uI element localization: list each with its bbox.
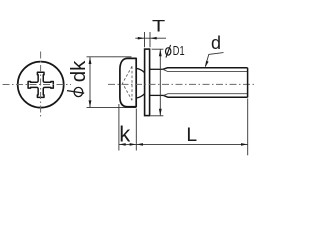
dim phi-D1 arrow up bbox=[159, 49, 162, 56]
leader arrowhead for d bbox=[205, 61, 209, 68]
screw tip end face bbox=[247, 68, 249, 98]
dim T arrow left (pointing right) bbox=[138, 37, 145, 40]
thread root top (thin) bbox=[163, 69, 247, 71]
thread shank stub top bbox=[150, 68, 163, 70]
captive washer bbox=[145, 49, 150, 116]
dim L arrow right bbox=[241, 143, 248, 146]
thread crest top bbox=[163, 68, 248, 70]
thread root bottom (thin) bbox=[164, 94, 248, 96]
leader line for d bbox=[205, 53, 223, 67]
svg-text:d: d bbox=[211, 33, 221, 53]
hidden recess opening line (dashed vertical) bbox=[131, 66, 133, 100]
phillips cross recess bbox=[28, 72, 53, 97]
dim phi-dk arrow down bbox=[89, 100, 92, 107]
node front-view centerline horizontal bbox=[3, 84, 72, 86]
dim phi-dk extension line bottom bbox=[87, 107, 137, 109]
dim T extension left bbox=[144, 32, 146, 47]
dim phi-D1 dimension line bbox=[159, 49, 161, 115]
svg-text:k: k bbox=[119, 121, 131, 146]
dim L arrow left bbox=[136, 143, 143, 146]
label phi-dk: phi symbol (drawn) bbox=[74, 87, 83, 96]
svg-text:dk: dk bbox=[67, 60, 90, 82]
dim phi-D1 arrow down bbox=[159, 109, 162, 116]
dim k arrow left (tip at left ext, pointing left) bbox=[119, 143, 126, 146]
neck fillet bottom bbox=[137, 94, 145, 98]
node front-view centerline vertical bbox=[40, 52, 42, 119]
dim T arrow right (pointing left) bbox=[150, 37, 157, 40]
thread crest bottom bbox=[164, 95, 248, 97]
dim L dimension line bbox=[136, 143, 247, 145]
hidden recess lines in head (dashed) bbox=[123, 66, 133, 100]
dim k extension left bbox=[118, 104, 120, 151]
svg-text:D1: D1 bbox=[173, 44, 185, 58]
dim k / L shared extension bbox=[135, 109, 137, 151]
dim phi-dk extension line top bbox=[87, 56, 132, 58]
side-view centerline bbox=[108, 83, 256, 85]
svg-text:T: T bbox=[152, 17, 165, 35]
dim T extension right bbox=[149, 32, 151, 47]
dim k arrow right (tip at right ext, pointing right) bbox=[130, 143, 137, 146]
neck fillet top bbox=[137, 68, 145, 72]
svg-text:L: L bbox=[186, 125, 197, 146]
screw head side view (pan head profile) bbox=[120, 58, 136, 106]
dim phi-dk arrow up bbox=[89, 57, 92, 64]
label phi-D1: phi symbol (drawn) bbox=[166, 48, 171, 55]
screw head front view (circle) bbox=[18, 62, 64, 108]
dim T dimension line bbox=[135, 37, 166, 39]
dim phi-D1 extension top bbox=[152, 48, 164, 50]
dim k dimension line bbox=[119, 143, 136, 145]
dim phi-D1 extension bottom bbox=[151, 115, 164, 117]
thread shank stub bottom bbox=[150, 94, 164, 96]
dim phi-dk dimension line bbox=[89, 57, 91, 107]
dim L extension right bbox=[247, 99, 249, 156]
